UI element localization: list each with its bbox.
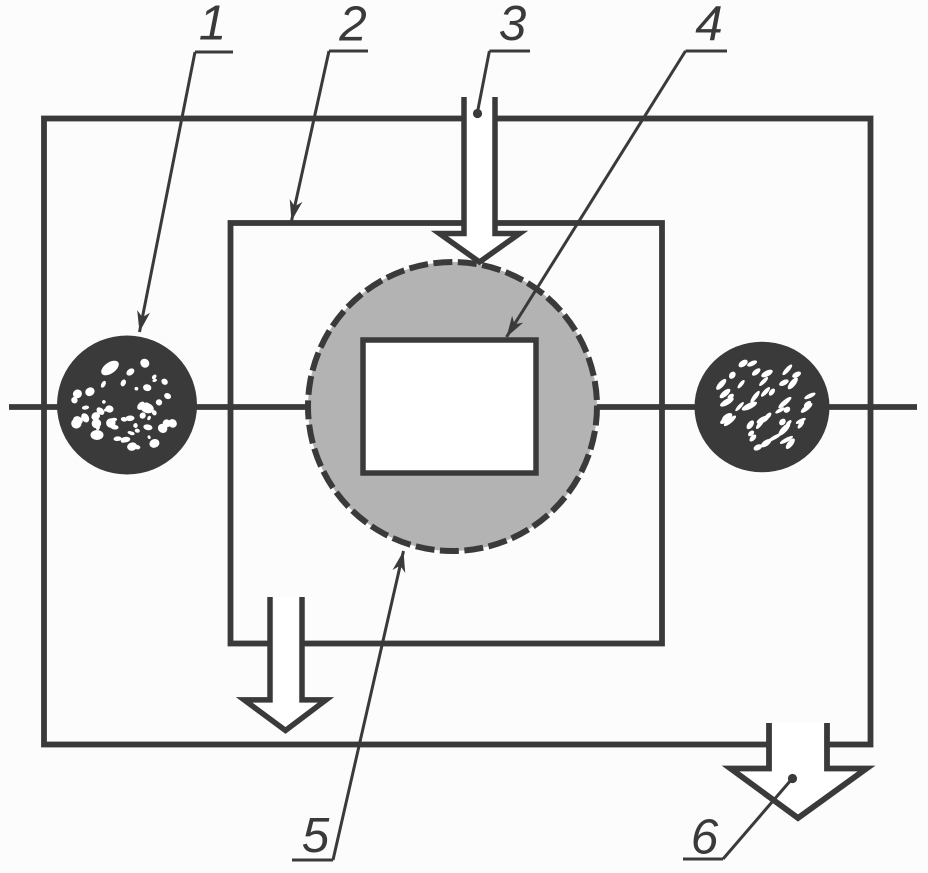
svg-text:1: 1 xyxy=(199,0,227,51)
svg-text:3: 3 xyxy=(499,0,527,51)
svg-text:6: 6 xyxy=(691,810,719,865)
svg-text:5: 5 xyxy=(302,808,330,863)
svg-text:2: 2 xyxy=(338,0,367,52)
svg-text:4: 4 xyxy=(695,0,723,51)
